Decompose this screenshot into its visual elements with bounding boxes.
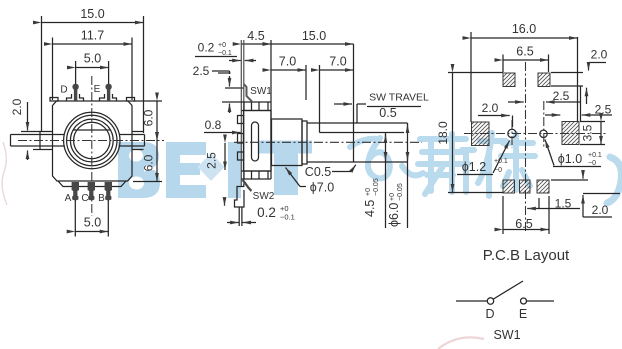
left tab bbox=[21, 131, 53, 133]
svg-text:SW TRAVEL: SW TRAVEL bbox=[369, 92, 429, 104]
sw travel line bbox=[353, 44, 355, 162]
SW2 tab bbox=[243, 180, 252, 191]
svg-text:E: E bbox=[519, 307, 527, 321]
center line bbox=[234, 141, 422, 143]
svg-text:0.2: 0.2 bbox=[198, 41, 215, 55]
bracket foot bbox=[235, 184, 245, 207]
body block bbox=[244, 111, 272, 172]
svg-text:16.0: 16.0 bbox=[512, 22, 536, 36]
svg-text:2.0: 2.0 bbox=[482, 101, 499, 115]
svg-text:+0.1: +0.1 bbox=[588, 152, 602, 159]
svg-text:6.0: 6.0 bbox=[142, 154, 156, 171]
pcb layout bbox=[436, 22, 620, 264]
slot bbox=[252, 122, 259, 161]
dim 3.5 bbox=[580, 121, 605, 123]
svg-text:A: A bbox=[65, 193, 72, 204]
side lugs bbox=[238, 116, 244, 124]
pad C bbox=[520, 180, 531, 193]
svg-text:0.2: 0.2 bbox=[257, 205, 276, 220]
svg-text:3.5: 3.5 bbox=[581, 124, 595, 141]
svg-text:5.0: 5.0 bbox=[84, 216, 101, 230]
bottom crown bbox=[241, 170, 271, 172]
bottom skirt bbox=[58, 181, 126, 187]
svg-text:15.0: 15.0 bbox=[80, 7, 104, 21]
svg-text:P.C.B Layout: P.C.B Layout bbox=[483, 247, 570, 264]
svg-text:B: B bbox=[98, 193, 105, 204]
svg-text:E: E bbox=[94, 84, 101, 95]
hole phi1.2 bbox=[508, 129, 516, 137]
svg-text:ϕ7.0: ϕ7.0 bbox=[310, 181, 334, 195]
flat line bbox=[320, 132, 405, 134]
svg-text:7.0: 7.0 bbox=[279, 55, 296, 69]
pad E bbox=[538, 73, 550, 87]
dim 4.5 rotated bbox=[385, 133, 387, 228]
pin B bbox=[105, 182, 112, 200]
pin D bbox=[74, 88, 77, 101]
pad A bbox=[503, 180, 515, 193]
pin C bbox=[88, 182, 95, 200]
svg-text:2.5: 2.5 bbox=[553, 89, 570, 103]
svg-text:2.0: 2.0 bbox=[592, 203, 609, 217]
svg-text:ϕ1.2: ϕ1.2 bbox=[462, 160, 486, 174]
svg-text:ϕ6.0: ϕ6.0 bbox=[387, 203, 401, 227]
svg-text:11.7: 11.7 bbox=[81, 29, 104, 43]
svg-text:0.8: 0.8 bbox=[205, 118, 222, 132]
svg-text:+0: +0 bbox=[218, 42, 226, 49]
front view bbox=[10, 7, 164, 237]
pin E bbox=[107, 88, 110, 101]
svg-text:ϕ1.0: ϕ1.0 bbox=[558, 152, 582, 166]
svg-text:D: D bbox=[60, 85, 67, 96]
flat chord bbox=[74, 129, 110, 131]
boss bbox=[272, 119, 303, 166]
svg-text:+0: +0 bbox=[389, 193, 396, 201]
left wing strip bbox=[11, 134, 65, 136]
lever bbox=[494, 281, 524, 299]
side view bbox=[193, 29, 429, 228]
svg-text:6.0: 6.0 bbox=[142, 109, 156, 126]
svg-text:SW1: SW1 bbox=[250, 86, 272, 97]
pad mid left bbox=[472, 122, 490, 146]
right wire bbox=[527, 300, 554, 302]
flange line bbox=[222, 101, 271, 103]
svg-text:+0.1: +0.1 bbox=[494, 158, 508, 165]
svg-text:C0.5: C0.5 bbox=[305, 165, 331, 179]
svg-text:2.0: 2.0 bbox=[591, 48, 608, 62]
pin A bbox=[72, 182, 79, 200]
body outline bbox=[53, 101, 133, 181]
shaft circles bbox=[64, 112, 120, 168]
bracket plate bbox=[240, 40, 242, 187]
svg-text:15.0: 15.0 bbox=[302, 29, 326, 43]
shaft end / dim phi6 line bbox=[407, 123, 409, 228]
svg-text:SW1: SW1 bbox=[493, 328, 520, 342]
pad D bbox=[503, 73, 515, 87]
dim phi6 rotated text bbox=[387, 183, 404, 227]
center lines bbox=[91, 76, 93, 216]
svg-text:−0.1: −0.1 bbox=[280, 213, 295, 222]
watermark layer bbox=[2, 133, 621, 349]
svg-text:2.0: 2.0 bbox=[10, 98, 24, 115]
svg-text:−0.05: −0.05 bbox=[397, 183, 404, 201]
svg-text:−0.05: −0.05 bbox=[373, 178, 380, 196]
hole phi1.0 bbox=[540, 130, 547, 137]
svg-text:0.5: 0.5 bbox=[379, 106, 396, 120]
svg-text:7.0: 7.0 bbox=[329, 55, 346, 69]
svg-text:18.0: 18.0 bbox=[436, 121, 450, 145]
top plate bumps bbox=[50, 98, 58, 102]
dim 0.2 bottom bbox=[238, 208, 240, 227]
sw1 schematic bbox=[456, 281, 554, 342]
top crown bbox=[241, 110, 271, 112]
center lines bbox=[525, 62, 527, 232]
svg-text:D: D bbox=[485, 307, 494, 321]
small arrow at center bbox=[508, 101, 524, 103]
svg-text:SW2: SW2 bbox=[253, 191, 275, 202]
dim 6.0 x2 right bbox=[133, 100, 162, 102]
svg-text:5.0: 5.0 bbox=[84, 52, 101, 66]
bottom right lines bbox=[551, 179, 588, 181]
svg-text:4.5: 4.5 bbox=[363, 200, 377, 217]
dim 18.0 bbox=[448, 72, 503, 74]
pad B bbox=[537, 180, 549, 193]
pad mid right bbox=[562, 122, 579, 145]
svg-text:+0: +0 bbox=[365, 188, 372, 196]
SW1 tab bbox=[244, 84, 252, 102]
right tab bbox=[132, 131, 144, 133]
shaft bbox=[307, 122, 408, 124]
contact D bbox=[487, 298, 493, 304]
svg-text:6.5: 6.5 bbox=[516, 45, 533, 59]
collar bbox=[302, 121, 307, 164]
svg-text:C: C bbox=[81, 193, 88, 204]
left wire bbox=[456, 300, 487, 302]
contact E bbox=[521, 298, 527, 304]
svg-text:4.5: 4.5 bbox=[247, 29, 264, 43]
svg-text:2.5: 2.5 bbox=[193, 64, 210, 78]
svg-text:2.5: 2.5 bbox=[205, 152, 219, 169]
